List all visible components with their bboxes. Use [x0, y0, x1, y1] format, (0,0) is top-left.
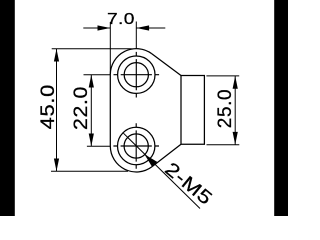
left letterbox bar: [0, 0, 15, 216]
right letterbox bar: [274, 0, 288, 216]
svg-text:25.0: 25.0: [215, 89, 236, 128]
top hole inner circle: [124, 63, 148, 87]
part outline: top lobe arc: [110, 49, 152, 75]
bottom hole inner circle: [124, 134, 148, 158]
arrow 22.0 top (points up): [89, 75, 94, 88]
arrow 45.0 bottom (points down): [54, 159, 59, 172]
arrow 7.0 right (points left): [136, 25, 149, 30]
dim 22.0 dimension line: [90, 75, 92, 147]
dim 22.0 bottom extension line: [87, 145, 110, 147]
part outline: left edge: [109, 75, 111, 146]
dim 7.0 right dimension line tail: [136, 27, 165, 29]
arrow 7.0 left (points right): [98, 25, 111, 30]
arrow 25.0 bottom (points down): [233, 132, 238, 145]
dim 45.0 top extension line: [52, 48, 132, 50]
top hole center mark horizontal: [114, 74, 160, 76]
dim 25.0 dimension line: [234, 76, 236, 145]
arrow 45.0 top (points up): [54, 49, 59, 62]
dim 7.0 right extension line: [135, 22, 137, 49]
bottom hole center mark horizontal: [113, 145, 159, 147]
bottom hole outer circle: [118, 127, 155, 164]
dim 45.0 dimension line: [56, 49, 58, 172]
leader line 2-M5: [123, 133, 200, 208]
dim 45.0 bottom extension line: [51, 170, 128, 172]
svg-text:45.0: 45.0: [37, 84, 58, 129]
svg-text:7.0: 7.0: [107, 9, 135, 27]
dim 7.0 left extension line: [109, 22, 111, 75]
arrow 22.0 bottom (points down): [89, 134, 94, 147]
dim 25.0 top extension line: [206, 75, 239, 77]
part outline: top diagonal to boss: [152, 54, 181, 76]
top hole outer circle: [118, 56, 155, 93]
part outline: boss rectangle: [181, 76, 204, 145]
dim 25.0 bottom extension line: [207, 144, 240, 146]
svg-text:22.0: 22.0: [71, 86, 92, 130]
part outline: bottom lobe arc: [110, 146, 152, 172]
part outline: bottom diagonal to boss: [152, 144, 181, 166]
top hole center mark vertical: [135, 52, 137, 98]
dim 22.0 top extension line: [84, 74, 111, 76]
arrow 25.0 top (points up): [233, 76, 238, 89]
bottom hole center mark vertical: [135, 123, 137, 169]
dim 7.0 left dimension line tail: [83, 27, 110, 29]
leader arrowhead (points up-left at hole): [144, 154, 157, 167]
